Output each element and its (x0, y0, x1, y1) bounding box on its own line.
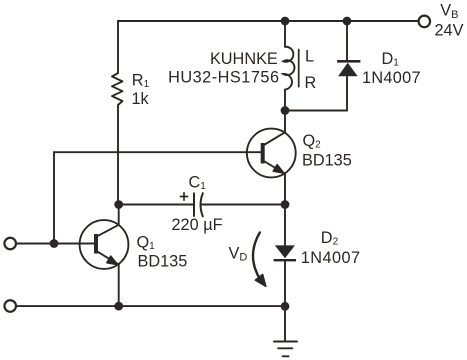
svg-text:HU32-HS1756: HU32-HS1756 (168, 69, 279, 87)
svg-text:R1: R1 (132, 72, 150, 91)
node input / Q1 base / Q2 base (50, 239, 59, 248)
svg-text:D1: D1 (382, 50, 400, 69)
wire bottom rail (17, 305, 285, 307)
wire C1 right to node E (201, 204, 285, 206)
capacitor C1 (193, 193, 195, 216)
node Q1 emitter / bottom rail (114, 302, 123, 311)
wire Q1 collector to node C (118, 205, 120, 225)
diode D2 (274, 245, 296, 261)
svg-text:1N4007: 1N4007 (362, 69, 421, 87)
wire left branch top (to R1) (117, 21, 119, 73)
svg-text:24V: 24V (435, 22, 464, 40)
wire Q1 emitter to bottom rail (118, 265, 120, 307)
transistor Q1 (80, 220, 129, 269)
wire D1 anode down (346, 77, 348, 111)
node C R1 / C1 / Q1 collector (114, 200, 123, 209)
svg-text:BD135: BD135 (302, 152, 352, 170)
wire R1 bottom to node C (117, 105, 119, 205)
wire node C to C1 left plate (118, 204, 194, 206)
wire node B to D1 bottom (285, 110, 347, 112)
svg-text:R: R (305, 74, 317, 92)
terminal VB (419, 16, 431, 28)
inductor relay coil KUHNKE (283, 47, 294, 90)
relay core bar (298, 50, 300, 87)
arrow VD (253, 233, 261, 281)
svg-text:BD135: BD135 (138, 253, 188, 271)
svg-text:220 µF: 220 µF (172, 216, 223, 234)
svg-text:1N4007: 1N4007 (301, 249, 361, 267)
svg-text:1k: 1k (132, 90, 150, 108)
wire ground stem (284, 306, 286, 341)
wire top rail (118, 20, 418, 22)
svg-text:C1: C1 (189, 174, 207, 193)
svg-text:VD: VD (229, 244, 248, 263)
wire D1 top branch (346, 21, 348, 60)
svg-text:D2: D2 (321, 229, 339, 248)
wire coil bottom to Q2 collector (284, 90, 286, 133)
wire input 1 to Q1 base (17, 243, 94, 245)
wire Q2 base branch (54, 152, 261, 243)
svg-text:Q2: Q2 (303, 132, 322, 151)
node B coil bottom / D1 / Q2 collector (281, 106, 290, 115)
svg-text:KUHNKE: KUHNKE (210, 50, 278, 68)
node top rail / coil (281, 17, 290, 26)
svg-text:L: L (305, 48, 314, 66)
node bottom rail / D2 / ground (281, 302, 290, 311)
diode D1 (337, 60, 360, 76)
ground (274, 341, 297, 343)
wire coil branch top (284, 21, 286, 47)
node E Q2 emitter / C1 / D2 (281, 200, 290, 209)
wire Q2 emitter to node E (284, 174, 286, 205)
wire D2 cathode to bottom rail (284, 262, 286, 307)
node top rail / D1 (343, 17, 352, 26)
svg-text:VB: VB (440, 2, 458, 21)
terminal input 1 (4, 238, 16, 250)
wire node E to D2 (284, 205, 286, 246)
label plus C1 (180, 192, 189, 201)
terminal input 2 (4, 300, 16, 312)
resistor R1 (112, 73, 123, 105)
transistor Q2 (247, 129, 296, 178)
svg-text:Q1: Q1 (137, 234, 156, 253)
